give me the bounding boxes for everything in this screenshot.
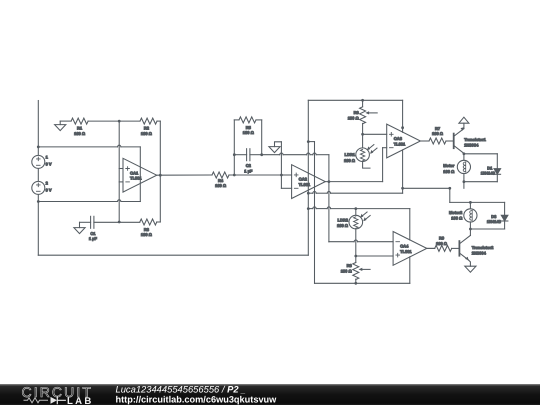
ground (OA2) [269,147,280,153]
wire [463,173,465,181]
resistor R4 100 Ohm [212,172,229,178]
photoresistor LDR2 100 Ohm [355,209,357,216]
wire [355,256,357,263]
wire: feedback vertical [159,121,161,222]
op-amp OA4 TL081 [393,232,427,266]
svg-text:100 Ω: 100 Ω [215,183,227,188]
svg-text:100 Ω: 100 Ω [348,115,360,120]
node Motor2+ [469,201,472,204]
power VCC [459,117,469,123]
potentiometer R8 100 Ohm [353,263,359,280]
transistor Q1 Transistor1 2N3904 [453,134,455,149]
svg-text:100 Ω: 100 Ω [337,223,349,228]
svg-text:TL081: TL081 [394,141,406,146]
svg-text:100 Ω: 100 Ω [344,158,356,163]
svg-text:LDR1: LDR1 [345,152,356,157]
wire: OA1 output [157,174,212,176]
node R6/LDR1 [361,133,364,136]
node LDR2/R8 [354,255,357,258]
voltage source V1 9V [32,155,45,168]
node R1/R2 [118,120,121,123]
wire: OA2 out to OA4 inverting [328,182,330,242]
svg-text:9 V: 9 V [46,162,52,167]
wire: gnd drop to input [280,142,282,175]
node R8 bottom [354,282,357,285]
op-amp OA1 TL081 [123,158,157,192]
wire A: V- rail [308,192,313,194]
wire [80,221,91,223]
wire [469,202,471,208]
wire [60,120,71,122]
voltage source V2 9V [32,181,45,194]
svg-text:1N4148: 1N4148 [481,171,496,176]
svg-text:100 Ω: 100 Ω [243,130,255,135]
svg-text:TL081: TL081 [130,176,142,181]
wire [446,140,453,142]
svg-text:R8: R8 [347,263,353,268]
svg-text:TL081: TL081 [400,249,412,254]
svg-text:100 Ω: 100 Ω [436,241,448,246]
svg-text:TL081: TL081 [299,182,311,187]
svg-text:100 Ω: 100 Ω [341,269,353,274]
wire: R5 left leg [233,120,235,175]
resistor R7 100 Ohm [429,138,446,144]
wire: to OA4 + [356,255,393,257]
svg-text:LDR2: LDR2 [338,217,349,222]
node OA3 V+ [401,126,404,129]
wire [362,100,364,107]
svg-text:http://circuitlab.com/c6wu3qku: http://circuitlab.com/c6wu3qkutsvuw [116,394,278,404]
svg-text:Transistor1: Transistor1 [464,137,486,142]
resistor R2 100 Ohm [140,118,157,124]
svg-text:2N3904: 2N3904 [472,250,487,255]
wire: bus B1 [307,100,309,255]
node OA3 V- [401,187,404,190]
photoresistor LDR1 100 Ohm [356,148,370,162]
svg-text:Motor2: Motor2 [449,210,463,215]
ground (R1) [59,121,61,125]
svg-text:OA3: OA3 [394,136,403,141]
ground (Q2) [465,266,476,272]
resistor R5 100 Ohm [239,117,256,123]
wire: left rail [37,101,39,147]
svg-text:Transistor2: Transistor2 [472,245,494,250]
potentiometer R6 100 Ohm [360,107,366,124]
wire: top box edge [308,99,402,101]
wire [157,221,161,223]
node V2- [37,200,40,203]
wire: B1-B2 link [308,141,314,143]
wire: bottom rail [38,254,308,256]
svg-text:100 Ω: 100 Ω [141,131,153,136]
wire [427,247,435,249]
resistor R1 100 Ohm [71,118,88,124]
ground (C1) [74,228,85,234]
wire: LDR1 bottom stub [363,162,370,169]
diode D1 1N4148 [496,154,498,169]
capacitor C1 1uF [90,216,92,228]
svg-text:1 µF: 1 µF [89,236,98,241]
op-amp OA3 TL081 [387,124,421,158]
svg-text:100 Ω: 100 Ω [141,232,153,237]
svg-text:LAB: LAB [67,396,94,405]
wire [157,120,160,122]
node Motor- [463,180,466,183]
node C2/R5 [260,153,263,156]
wire: R5 right leg [256,119,262,121]
wire [362,123,364,147]
svg-text:100 Ω: 100 Ω [74,131,86,136]
svg-text:1N4148: 1N4148 [487,219,502,224]
node OA2 out [328,180,331,183]
wire: bus B2 [314,142,316,284]
svg-text:Luca1234445545656556 / P2 _: Luca1234445545656556 / P2 _ [116,383,246,394]
svg-text:OA2: OA2 [299,177,308,182]
node R4/R5 [233,174,236,177]
node C1/R3 [118,221,121,224]
node Q1 emitter [463,152,466,155]
wire: feedback to OA2 [262,154,280,156]
wire: to OA3 + [363,133,387,135]
wire [464,153,497,155]
svg-text:100 Ω: 100 Ω [443,169,455,174]
motor Motor2 100 Ohm [464,209,477,222]
svg-text:Motor: Motor [443,163,455,168]
svg-text:1 µF: 1 µF [244,168,253,173]
wire: OA2 output [325,181,382,183]
resistor R9 100 Ohm [435,245,452,251]
svg-text:9 V: 9 V [46,188,52,193]
motor Motor 100 Ohm [457,160,470,173]
wire: V1+ to opamp loop [38,146,117,148]
wire: LDR2 bottom [355,229,357,256]
svg-text:OA1: OA1 [130,170,139,175]
wire [88,120,140,122]
capacitor C2 1uF [246,149,248,161]
svg-text:100 Ω: 100 Ω [432,131,444,136]
wire: OA1 input bus [118,121,120,222]
wire [355,279,357,283]
node Motor2- [469,228,472,231]
node V1+ [37,146,40,149]
wire: to OA3 inverting input [382,148,384,182]
wire [229,174,281,176]
node OA1 out [159,174,162,177]
wire: OA3 out [420,140,429,142]
wire [469,222,471,229]
svg-text:OA4: OA4 [400,244,409,249]
wire B: OA4 V+ rail [308,208,313,210]
diode D3 1N4148 [504,202,506,215]
transistor Q2 Transistor2 2N3904 [469,229,471,235]
wire: OA4 bottom rail [315,282,410,284]
svg-text:100 Ω: 100 Ω [451,216,463,221]
wire: C2 row [234,154,246,156]
op-amp OA2 TL081 [292,165,326,199]
wire: OA4 out [427,247,435,249]
wire [94,221,140,223]
resistor R3 100 Ohm [140,219,157,225]
svg-text:2N3904: 2N3904 [464,142,479,147]
